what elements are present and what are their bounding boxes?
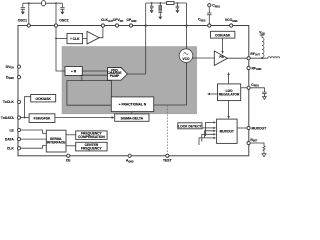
capacitor C4 (loop filter electrolytic) (159, 2, 163, 17)
VCO U4 (179, 49, 193, 63)
node osc to clk divider (55, 38, 57, 40)
svg-text:÷ CLK: ÷ CLK (70, 37, 80, 41)
modulator OOK/ASK (data path) (31, 95, 56, 102)
buffer U2 (clkout buffer) (83, 38, 88, 40)
wire TxDATA to OOK/ASK (25, 97, 31, 118)
divider R (÷R) (65, 67, 82, 76)
wire test mux dashed (166, 105, 168, 154)
node OSC2 rail junction (55, 2, 57, 4)
sigma-delta modulator (115, 114, 149, 121)
wire OSC2 riser (55, 3, 57, 24)
pin RFGND (247, 66, 250, 69)
resistor R1 (loop filter) (167, 2, 175, 5)
capacitor C7 (CREG2 bypass) (250, 88, 266, 97)
svg-text:CREG: CREG (251, 83, 259, 88)
wire serial to center frequency (66, 145, 76, 147)
svg-text:CLK: CLK (7, 147, 15, 151)
node vcoin border crossing (185, 25, 187, 27)
wire buffer to CLKOUT pin (99, 27, 103, 38)
wire loop filter rail (146, 2, 187, 4)
capacitor C5 (loop filter) (176, 2, 180, 10)
wire mux input 3 (205, 130, 217, 138)
pin MUXOUT (247, 126, 250, 129)
chip boundary (18, 26, 249, 156)
svg-text:PA: PA (219, 55, 224, 59)
resistor R2 (RSET external) (250, 143, 265, 154)
node TxDATA split (24, 117, 26, 119)
pin CE (67, 154, 70, 157)
crystal X1 (41, 1, 45, 6)
pin CREG2 (247, 86, 250, 89)
svg-text:TEST: TEST (163, 159, 173, 163)
svg-text:OSC1: OSC1 (18, 19, 27, 23)
svg-text:÷ FRACTIONAL N: ÷ FRACTIONAL N (119, 103, 147, 107)
wire TxDATA to modulators (21, 117, 29, 119)
svg-text:SIGMA-DELTA: SIGMA-DELTA (121, 116, 144, 120)
wire mux input 4 (202, 133, 216, 141)
wire charge pump output riser (145, 3, 147, 74)
capacitor C6 (CREG bypass) (207, 7, 211, 24)
pin CLK (17, 147, 20, 150)
pin VCOGND (230, 24, 233, 27)
svg-text:CE: CE (66, 159, 71, 163)
wire LDO to CREG2 pin (241, 87, 247, 89)
ground (R2) (262, 154, 266, 157)
capacitor C2 (OSC2 load cap) (60, 3, 64, 12)
wire mux to MUXOUT pin (237, 127, 247, 129)
wire vco tune riser (186, 3, 188, 49)
wire FSK/GFSK to sigma-delta (55, 116, 115, 119)
ground (C7) (263, 97, 267, 100)
wire LE to serial interface (21, 130, 47, 133)
pin OSC2 (54, 24, 57, 27)
pin TxCLK (17, 100, 20, 103)
ground (C3) (150, 10, 154, 13)
svg-text:LE: LE (9, 128, 14, 132)
svg-text:MUXOUT: MUXOUT (252, 126, 268, 130)
pin TxDATA (17, 116, 20, 119)
node cpout border crossing (145, 25, 147, 27)
capacitor C3 (loop filter) (150, 2, 154, 10)
modulator FSK/GFSK (29, 114, 55, 123)
svg-text:COMPENSATION: COMPENSATION (78, 135, 105, 139)
pin DATA (17, 138, 20, 141)
wire OSC1 riser (28, 3, 30, 24)
amplifier PA (214, 51, 227, 66)
node OSC1 rail junction (28, 2, 30, 4)
wire PFD output to loop filter (128, 73, 146, 75)
svg-text:VCO: VCO (182, 57, 190, 61)
pin TEST (166, 154, 169, 157)
modulator OOK/ASK (PA control) (211, 31, 235, 38)
svg-text:PUMP: PUMP (110, 74, 120, 78)
svg-text:OOK/ASK: OOK/ASK (36, 97, 52, 101)
wire mux input 1 (206, 121, 217, 136)
ground (C1) (21, 12, 25, 15)
svg-text:TxDATA: TxDATA (1, 116, 14, 120)
pin OSC1 (27, 24, 30, 27)
wire N feedback to PFD input (82, 75, 108, 80)
wire CLK to serial interface (21, 146, 47, 149)
svg-text:DATA: DATA (5, 137, 14, 141)
wire LDO down to muxout (227, 101, 229, 119)
svg-text:÷ R: ÷ R (71, 70, 77, 74)
pin DGND (17, 76, 20, 79)
pin AGND (128, 154, 131, 157)
svg-text:TxCLK: TxCLK (3, 100, 14, 104)
pin DVDD (17, 65, 20, 68)
LDO regulator block (218, 84, 241, 101)
svg-text:RSET: RSET (250, 138, 258, 143)
divider N (fractional N) (111, 97, 153, 112)
wire OOK/ASK to PA (221, 38, 223, 54)
wire N divider feedback loop (67, 81, 112, 106)
wire LDO left supply arrow (207, 93, 218, 95)
node CREG cap top terminal (208, 4, 211, 7)
node RFOUT choke junction (261, 57, 263, 59)
wire sigma-delta to N divider (131, 112, 133, 114)
wire lock detect to mux (202, 127, 216, 129)
svg-text:OOK/ASK: OOK/ASK (215, 33, 231, 37)
gray PLL core region (62, 47, 197, 114)
divider CLK (÷CLK) (67, 34, 83, 44)
pin CPVDD (115, 24, 118, 27)
pin LE (17, 128, 20, 131)
ground (C5) (175, 10, 179, 13)
wire PA to RFOUT (228, 57, 249, 59)
ground (C4) (158, 17, 162, 20)
wire VCO to PA (192, 57, 214, 59)
wire crystal rail (23, 2, 63, 4)
svg-text:MUXOUT: MUXOUT (220, 130, 234, 134)
svg-text:DVDD: DVDD (6, 65, 14, 70)
capacitor C1 (OSC1 load cap) (21, 3, 25, 12)
supply VDD terminal (259, 31, 265, 36)
serial interface block (46, 130, 66, 152)
svg-text:RFOUT: RFOUT (250, 52, 260, 57)
pin CLKOUT (101, 24, 104, 27)
ground (C2) (60, 12, 64, 15)
pin RFOUT (247, 57, 250, 60)
pin RSET (247, 141, 250, 144)
wire VCO to N divider feedback (154, 63, 187, 106)
wire DATA to serial interface (21, 138, 47, 140)
lock detect block (178, 123, 202, 129)
wire OSC2 internal distribution (56, 27, 65, 71)
svg-text:FSK/GFSK: FSK/GFSK (34, 117, 51, 121)
wire to CLK divider (56, 37, 67, 39)
wire R divider to PFD (82, 70, 107, 72)
wire mux input 5 (199, 137, 216, 145)
svg-text:LOCK DETECT: LOCK DETECT (178, 125, 201, 129)
frequency compensation block (76, 131, 107, 140)
svg-text:INTERFACE: INTERFACE (47, 141, 66, 145)
wire LDO up to RF section (227, 72, 229, 84)
center frequency block (76, 142, 107, 151)
PFD / charge pump U3 (107, 68, 127, 81)
inductor L2 (output match) (268, 57, 280, 58)
pin CPGND (129, 24, 132, 27)
pin CREG (208, 24, 211, 27)
svg-text:REGULATOR: REGULATOR (219, 92, 240, 96)
svg-text:OSC2: OSC2 (59, 19, 68, 23)
inductor L1 (RF choke) (262, 35, 264, 58)
svg-text:FREQUENCY: FREQUENCY (81, 146, 102, 150)
wire serial to frequency compensation (66, 134, 76, 136)
muxout mux block (217, 119, 238, 143)
wire RFOUT external (250, 57, 267, 59)
